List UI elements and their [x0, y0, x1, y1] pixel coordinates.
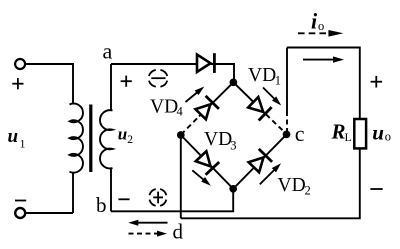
svg-text:u: u [372, 121, 384, 145]
svg-text:u: u [8, 126, 19, 147]
svg-text:VD: VD [204, 129, 232, 150]
svg-text:L: L [345, 130, 352, 144]
svg-text:3: 3 [230, 138, 236, 152]
svg-text:2: 2 [305, 183, 311, 197]
svg-text:o: o [385, 130, 391, 144]
svg-text:1: 1 [20, 137, 26, 151]
svg-text:a: a [103, 38, 113, 63]
svg-text:1: 1 [275, 74, 281, 88]
svg-text:i: i [311, 8, 318, 33]
svg-text:VD: VD [150, 97, 178, 118]
svg-text:b: b [96, 193, 107, 217]
svg-text:d: d [173, 220, 184, 244]
svg-text:u: u [118, 125, 127, 144]
svg-text:4: 4 [177, 104, 184, 118]
svg-text:c: c [295, 121, 305, 146]
svg-text:VD: VD [248, 65, 276, 86]
svg-text:2: 2 [127, 134, 133, 146]
svg-text:R: R [331, 120, 346, 144]
svg-text:VD: VD [278, 175, 306, 196]
svg-text:o: o [318, 19, 324, 33]
